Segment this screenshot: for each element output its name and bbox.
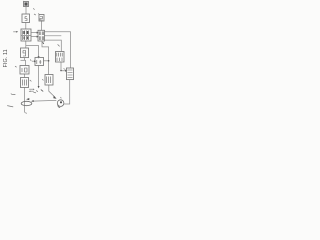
svg-text:FIG. 11: FIG. 11 [3,49,9,67]
